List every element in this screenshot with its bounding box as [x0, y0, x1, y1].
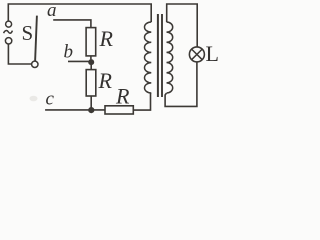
AC source tilde symbol: [4, 31, 13, 34]
wire secondary top to lamp: [167, 4, 198, 47]
wire source bottom to switch contact: [8, 44, 31, 64]
wire node b to resistor R2: [90, 65, 92, 70]
resistor R2: [86, 70, 96, 96]
wire R3 to transformer primary bottom: [133, 93, 150, 110]
wire tap b: [68, 60, 89, 62]
switch S blade: [35, 16, 37, 62]
svg-text:R: R: [99, 26, 114, 51]
wire R1 to node b: [90, 56, 92, 60]
resistor R3: [105, 106, 133, 114]
lamp L circle: [189, 47, 204, 62]
AC source terminal top: [6, 21, 12, 27]
wire tap a to resistor R1: [53, 20, 91, 28]
svg-text:S: S: [22, 21, 34, 45]
svg-text:b: b: [64, 41, 74, 62]
svg-text:a: a: [47, 0, 57, 21]
transformer core line right: [161, 14, 163, 97]
lamp L cross: [192, 49, 203, 60]
AC source terminal bottom: [5, 38, 11, 44]
wire R2 to bottom node: [90, 96, 92, 108]
node b junction dot: [88, 59, 94, 65]
transformer secondary coil: [167, 22, 173, 93]
transformer primary coil: [144, 22, 151, 93]
transformer core line left: [157, 14, 159, 97]
svg-text:L: L: [206, 41, 219, 66]
svg-text:R: R: [98, 68, 113, 93]
resistor R1: [86, 28, 96, 56]
smudge (scan noise): [30, 96, 38, 102]
svg-text:c: c: [46, 89, 55, 110]
node c junction dot: [88, 107, 94, 113]
wire lamp to secondary bottom: [165, 62, 197, 107]
wire top rail from source to transformer primary: [8, 4, 151, 22]
wire tap c bottom rail: [45, 109, 105, 111]
switch S contact circle: [32, 61, 38, 67]
svg-text:R: R: [115, 84, 130, 109]
